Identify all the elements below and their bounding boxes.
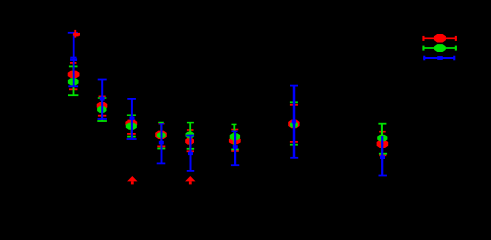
point 7 red error bar (290, 104, 298, 143)
point 2 green error bar (97, 97, 107, 122)
point 2 red circle marker (97, 102, 108, 109)
legend red entry: error bar sample with circle marker (422, 34, 457, 43)
point 5 blue square marker (188, 152, 193, 155)
point 6 blue error bar (231, 131, 239, 167)
point 7 green circle marker (290, 122, 298, 128)
point 2 blue square marker (100, 97, 105, 101)
point 7 green error bar (290, 101, 298, 145)
point 2 blue error bar (98, 79, 107, 120)
point 1 red circle marker (68, 71, 80, 79)
point 3 green circle marker (126, 123, 137, 130)
point 7 blue error bar (290, 85, 298, 159)
point 1 red error bar (69, 62, 77, 90)
point 6 red circle marker (229, 137, 241, 144)
point 1 green circle marker (68, 78, 79, 85)
point 7 blue square marker (292, 120, 296, 124)
point 8 green circle marker (377, 135, 387, 141)
point 5 red error bar (187, 129, 194, 152)
point 3 red circle marker (125, 120, 137, 127)
point 2 green circle marker (97, 106, 106, 113)
point 1 blue square marker (70, 58, 77, 61)
point 5 red circle marker (185, 138, 194, 145)
point 8 blue error bar (379, 136, 387, 176)
point 4 green error bar (157, 122, 165, 150)
point 3 red up-arrow marker (127, 176, 137, 181)
point 5 red up-arrow marker (185, 176, 195, 181)
point 3 green error bar (127, 114, 136, 137)
point 3 red error bar (127, 120, 136, 135)
point 8 green error bar (378, 123, 387, 155)
point 2 red error bar (98, 96, 106, 117)
point 5 blue error bar (186, 135, 194, 172)
point 4 blue error bar (157, 123, 166, 164)
point 1 blue error bar (68, 32, 78, 87)
point 4 red error bar (157, 123, 165, 147)
point 4 red circle marker (155, 131, 167, 139)
point 1 green error bar (68, 66, 78, 97)
legend green entry: error bar sample with circle marker (422, 44, 457, 52)
point 6 red error bar (231, 129, 239, 152)
point 3 blue error bar (127, 98, 137, 140)
point 4 green circle marker (157, 132, 166, 138)
point 3 blue square marker (130, 116, 135, 120)
point 8 red error bar (379, 131, 386, 156)
point 8 red circle marker (377, 140, 389, 148)
point 1 red star marker (73, 30, 80, 38)
point 8 blue square marker (380, 155, 385, 159)
point 6 green circle marker (230, 133, 240, 140)
point 7 red circle marker (288, 120, 299, 129)
legend blue entry: error bar sample with square marker (423, 56, 455, 61)
point 6 green error bar (231, 124, 239, 151)
point 4 blue square marker (159, 141, 164, 145)
point 5 green error bar (187, 122, 195, 150)
point 5 green circle marker (186, 132, 195, 139)
point 6 blue square marker (233, 145, 238, 149)
